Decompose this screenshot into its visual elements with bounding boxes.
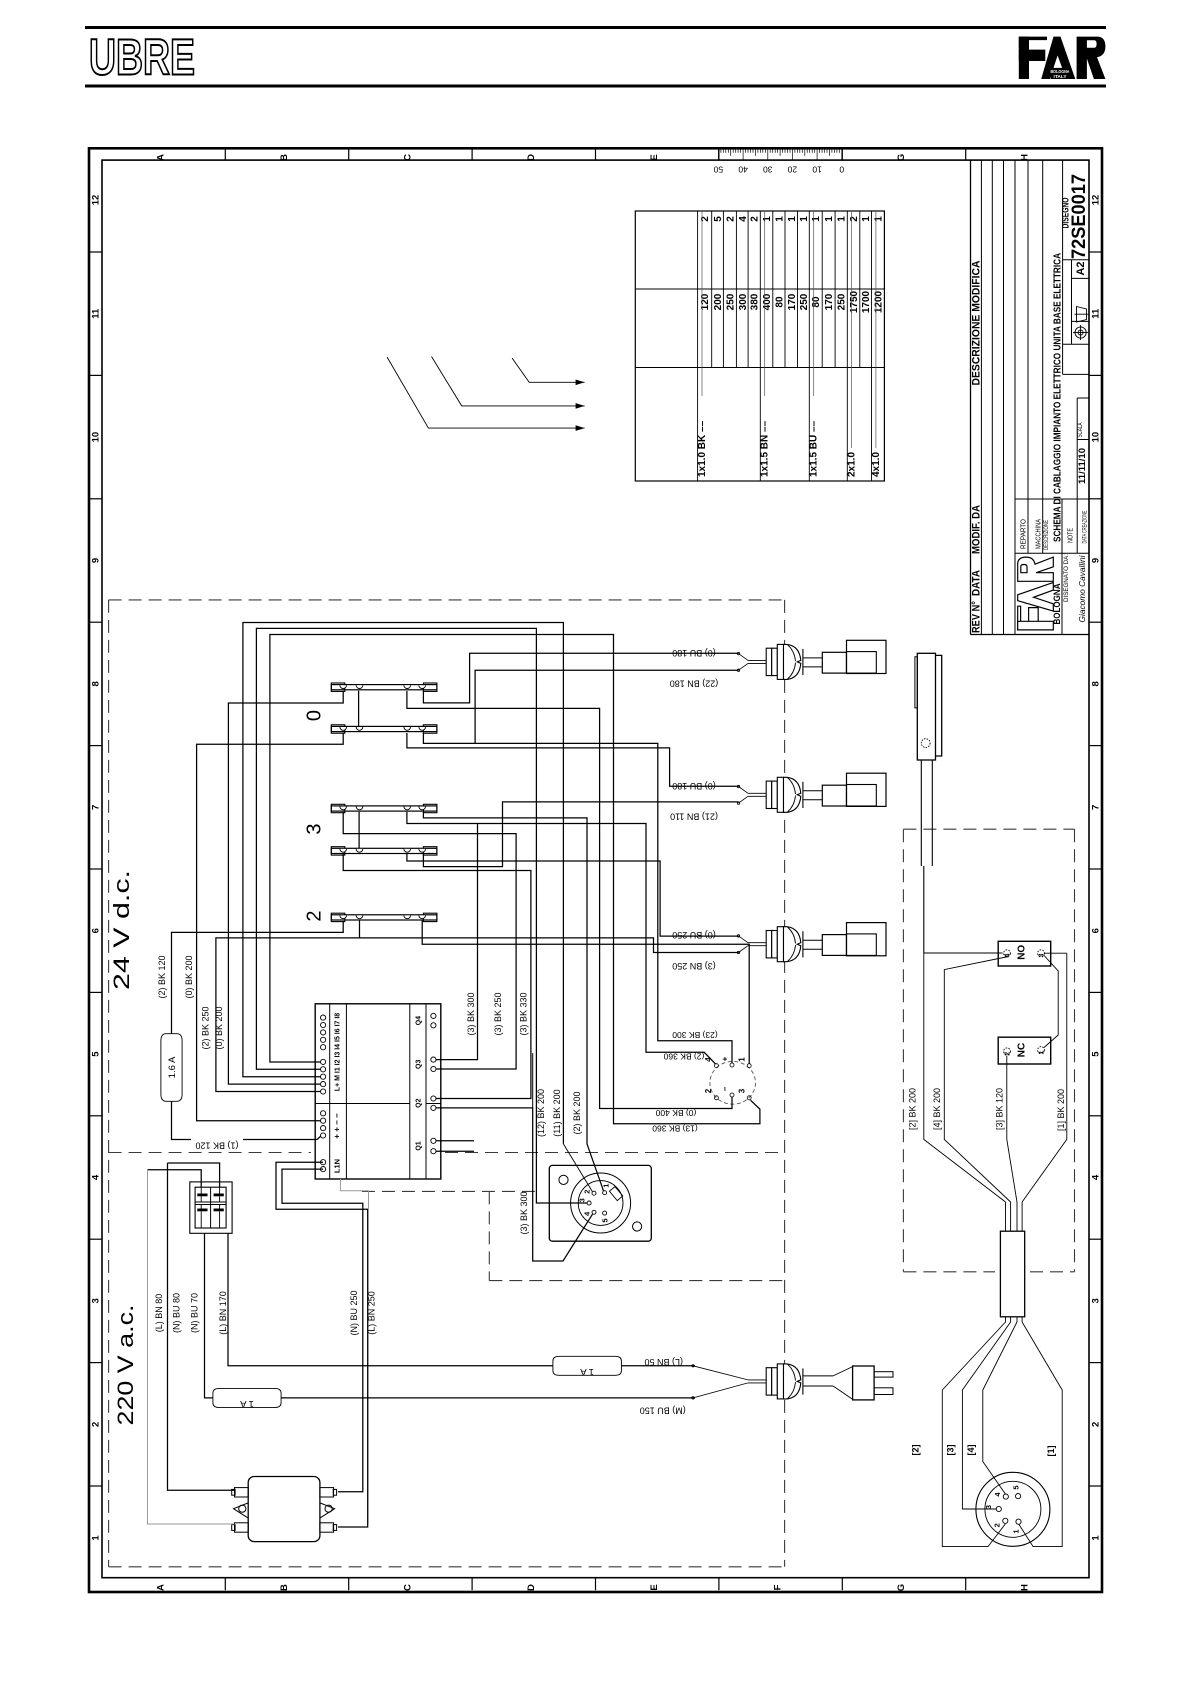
- svg-text:1 A: 1 A: [239, 1398, 253, 1409]
- svg-text:DISEGNATO DA:: DISEGNATO DA:: [1063, 554, 1070, 602]
- valve block 3 top bar: [331, 806, 437, 811]
- svg-text:(N) BU 70: (N) BU 70: [189, 1293, 199, 1333]
- reed sensor stem: [920, 760, 922, 866]
- DIN socket pins: [603, 1191, 607, 1195]
- wire: valve2 right pins: [359, 920, 361, 938]
- ruler top band dividers: [224, 148, 226, 160]
- svg-text:3: 3: [737, 1088, 746, 1093]
- svg-text:(0) BU 250: (0) BU 250: [672, 930, 716, 940]
- svg-text:−: −: [720, 1086, 729, 1091]
- wire: I1 bus to circular connector pin3 via (13) BK 360: [270, 635, 760, 1124]
- svg-text:8: 8: [91, 681, 102, 686]
- svg-text:7: 7: [91, 805, 102, 810]
- DIN panel socket plate: [549, 1165, 651, 1241]
- svg-text:[4] BK 200: [4] BK 200: [932, 1088, 942, 1130]
- svg-text:2: 2: [91, 1422, 102, 1427]
- cable wires into sheath: [1005, 1202, 1007, 1231]
- leader arrow 1: [387, 357, 584, 428]
- wire: I2 bus to DIN pin3: [256, 628, 587, 1203]
- svg-text:(3) BK 300: (3) BK 300: [519, 1191, 529, 1234]
- svg-text:1: 1: [1039, 1050, 1046, 1054]
- wire: (L) BN 80 to EMI left top tab: [168, 1163, 235, 1490]
- svg-text:REV N°: REV N°: [971, 601, 983, 633]
- svg-text:1: 1: [91, 1535, 102, 1541]
- svg-text:9: 9: [1091, 558, 1102, 563]
- svg-text:4: 4: [1091, 1174, 1102, 1180]
- svg-text:1: 1: [1011, 1529, 1020, 1533]
- svg-text:(2) BK 250: (2) BK 250: [201, 1006, 211, 1049]
- svg-text:(0) BK 200: (0) BK 200: [184, 955, 194, 998]
- reed sensor body: [936, 655, 942, 756]
- svg-text:220 V a.c.: 220 V a.c.: [113, 1305, 138, 1426]
- svg-text:(13) BK 360: (13) BK 360: [652, 1124, 698, 1134]
- EMI filter mounting ears: [234, 1503, 249, 1518]
- svg-text:NO: NO: [1016, 945, 1027, 960]
- wire: valve3 top bar right pins: [423, 812, 603, 1191]
- svg-text:(3) BK 330: (3) BK 330: [519, 992, 529, 1035]
- svg-text:1 A: 1 A: [580, 1366, 594, 1377]
- wires: sensor stem to NO switch and cable: [924, 952, 1003, 954]
- svg-text:1: 1: [861, 216, 872, 222]
- leader arrow 2: [432, 357, 585, 406]
- svg-text:+: +: [720, 1056, 729, 1061]
- svg-text:5: 5: [91, 1051, 102, 1057]
- svg-text:200: 200: [713, 293, 724, 310]
- svg-text:4x1.0: 4x1.0: [871, 452, 882, 477]
- svg-text:80: 80: [774, 296, 785, 308]
- svg-text:DATA: DATA: [971, 570, 983, 596]
- ruler bottom band dividers: [224, 1578, 226, 1591]
- wire: Q1a stub: [436, 1140, 474, 1142]
- svg-text:10: 10: [812, 165, 822, 175]
- valve block 3 interbar link: [358, 812, 360, 848]
- svg-text:170: 170: [824, 293, 835, 310]
- svg-text:Giacomo Cavallini: Giacomo Cavallini: [1077, 554, 1087, 622]
- svg-text:1: 1: [824, 216, 835, 222]
- svg-text:1: 1: [602, 1184, 611, 1188]
- svg-text:1x1.5 BU ––: 1x1.5 BU ––: [809, 420, 820, 477]
- wire: (L) BN 170 to right 1A fuse: [228, 1233, 553, 1366]
- controller input terminals: [321, 1015, 326, 1020]
- bottom DIN plug: [976, 1472, 1050, 1546]
- controller L1N terminals: [321, 1160, 326, 1165]
- svg-text:72SE0017: 72SE0017: [1069, 174, 1090, 259]
- wire: branch to sensor connector 1 lower (22) BN 180: [475, 670, 738, 743]
- EMI filter body: [248, 1477, 320, 1542]
- ruler left band dividers: [89, 251, 102, 253]
- svg-text:5: 5: [713, 216, 724, 222]
- svg-text:3: 3: [304, 823, 326, 834]
- svg-text:C: C: [402, 154, 413, 161]
- svg-text:D: D: [526, 1584, 537, 1591]
- DIN socket keyway: [609, 1187, 622, 1201]
- svg-text:1x1.5 BN ––: 1x1.5 BN ––: [760, 420, 771, 477]
- wire table: [635, 211, 884, 481]
- svg-text:5: 5: [600, 1218, 609, 1222]
- svg-text:ITALY: ITALY: [1054, 74, 1068, 80]
- svg-text:(M) BU 150: (M) BU 150: [640, 1406, 686, 1416]
- title block: [970, 160, 972, 634]
- svg-text:(3) BK 300: (3) BK 300: [466, 992, 476, 1035]
- svg-text:8: 8: [1091, 681, 1102, 686]
- svg-text:1200: 1200: [874, 290, 885, 313]
- switch NC: [998, 1037, 1050, 1064]
- svg-text:2: 2: [704, 1088, 713, 1093]
- svg-text:B: B: [279, 154, 290, 161]
- sensor connector 2: [737, 785, 739, 787]
- svg-text:5: 5: [1011, 1485, 1020, 1489]
- svg-text:3: 3: [91, 1298, 102, 1303]
- svg-text:4: 4: [91, 1174, 102, 1180]
- svg-text:L1N: L1N: [333, 1159, 342, 1173]
- svg-text:H: H: [1019, 1584, 1030, 1591]
- fuse 1.6 A: [161, 1034, 182, 1102]
- svg-text:20: 20: [787, 165, 797, 175]
- dashed box DIN socket: [362, 1190, 536, 1192]
- svg-text:1750: 1750: [849, 290, 860, 313]
- svg-text:DESCRIZIONE MODIFICA: DESCRIZIONE MODIFICA: [971, 260, 983, 385]
- svg-text:380: 380: [750, 293, 761, 310]
- sensor connector 1: [737, 652, 739, 654]
- wire: Q3a tap to valve3 feed: [436, 824, 478, 1060]
- svg-text:NC: NC: [1016, 1043, 1027, 1057]
- fuse block: [190, 1182, 232, 1233]
- svg-text:(L) BN 170: (L) BN 170: [218, 1291, 228, 1335]
- valve block 0 top bar: [331, 685, 437, 690]
- projection symbol: [1073, 307, 1089, 341]
- wire: I5 to valve2 / sensor3 BN: [216, 938, 739, 1092]
- svg-text:(N) BU 80: (N) BU 80: [172, 1293, 182, 1333]
- svg-text:BOLOGNA: BOLOGNA: [1051, 69, 1070, 75]
- wire: valve3 left pins to Q outputs: [343, 812, 516, 1069]
- svg-text:+ + − −: + + − −: [333, 1113, 342, 1139]
- wire: I3 bus to DIN pin1: [243, 623, 564, 1144]
- svg-text:11/11/10: 11/11/10: [1077, 448, 1088, 484]
- wire: (3) BK 300 label vertical upper: [532, 1053, 534, 1108]
- svg-text:2: 2: [304, 910, 326, 921]
- svg-text:1: 1: [874, 216, 885, 222]
- svg-text:[4]: [4]: [966, 1444, 976, 1455]
- cable fan-out below sheath: [942, 1322, 1005, 1547]
- dashed divider 24V/220V: [109, 1152, 311, 1154]
- svg-text:11: 11: [91, 308, 102, 319]
- svg-text:30: 30: [763, 165, 773, 175]
- svg-text:[2]: [2]: [911, 1444, 921, 1455]
- svg-text:2: 2: [849, 216, 860, 222]
- wire: - via 1.6A fuse to valve2 left pin: [172, 1101, 321, 1139]
- wires: fuse block top: [168, 1163, 220, 1187]
- svg-text:MACCHINA: MACCHINA: [1036, 519, 1043, 549]
- svg-text:(23) BK 300: (23) BK 300: [672, 1030, 718, 1040]
- svg-text:9: 9: [91, 558, 102, 563]
- svg-text:2x1.0: 2x1.0: [846, 452, 857, 477]
- header bottom rule: [85, 85, 1106, 88]
- svg-text:A: A: [156, 1584, 167, 1591]
- svg-text:0: 0: [839, 165, 844, 175]
- wire: Q2b to DIN pin4: [436, 1108, 593, 1261]
- wire: + to valve0 bottom bar left pin: [197, 733, 344, 1121]
- svg-text:1: 1: [1091, 1535, 1102, 1541]
- svg-text:7: 7: [1091, 805, 1102, 810]
- svg-text:(N) BU 250: (N) BU 250: [349, 1290, 359, 1335]
- svg-text:A2: A2: [1075, 261, 1087, 275]
- label (1) BK 120: [191, 1133, 243, 1144]
- svg-text:(L) BN 80: (L) BN 80: [154, 1294, 164, 1333]
- svg-text:[3] BK 120: [3] BK 120: [994, 1088, 1004, 1130]
- svg-text:80: 80: [811, 296, 822, 308]
- controller box: [315, 1004, 441, 1179]
- svg-text:1: 1: [811, 216, 822, 222]
- drawing frame inner boundary: [102, 160, 1089, 1578]
- valve block 0 bottom bar: [331, 726, 437, 731]
- svg-text:24 V d.c.: 24 V d.c.: [109, 870, 134, 990]
- wire: valve0 bottom bar right pins: [423, 733, 732, 1063]
- svg-text:1: 1: [737, 1057, 746, 1062]
- svg-text:H: H: [1019, 154, 1030, 161]
- svg-text:11: 11: [1091, 308, 1102, 319]
- svg-text:40: 40: [738, 165, 748, 175]
- wire: valve0 top bar right pins to sensor connector 1: [423, 653, 738, 703]
- FAR logo (header, solid): [1019, 37, 1047, 48]
- svg-text:Q4: Q4: [416, 1016, 423, 1025]
- svg-text:UBRE: UBRE: [89, 29, 195, 86]
- svg-text:2: 2: [1005, 1052, 1012, 1056]
- svg-text:A: A: [156, 154, 167, 161]
- svg-text:C: C: [402, 1584, 413, 1591]
- svg-text:Q3: Q3: [416, 1060, 423, 1069]
- drawing frame outer: [89, 148, 1102, 1592]
- svg-text:2: 2: [583, 1190, 592, 1194]
- FAR outline logo (title block): [1018, 557, 1054, 630]
- grey wire from controller bottom: [340, 1179, 368, 1524]
- svg-text:1: 1: [787, 216, 798, 222]
- svg-text:250: 250: [799, 293, 810, 310]
- wire: I4 to valve0 top bar left pin: [228, 691, 343, 1084]
- svg-text:1: 1: [762, 216, 773, 222]
- svg-text:10: 10: [91, 432, 102, 443]
- svg-text:MODIF. DA: MODIF. DA: [971, 505, 983, 554]
- svg-text:(2) BK 360: (2) BK 360: [663, 1051, 704, 1061]
- svg-text:300: 300: [738, 293, 749, 310]
- svg-text:250: 250: [725, 293, 736, 310]
- wire: Q1b stub: [436, 1150, 474, 1152]
- svg-text:(0) BK 200: (0) BK 200: [214, 1006, 224, 1049]
- svg-text:[3]: [3]: [946, 1444, 956, 1455]
- wire: L1N to EMI filter right tabs: [282, 1169, 363, 1492]
- svg-text:6: 6: [91, 928, 102, 933]
- svg-text:(2) BK 200: (2) BK 200: [572, 1091, 582, 1134]
- svg-text:1700: 1700: [861, 290, 872, 313]
- svg-text:REPARTO: REPARTO: [1019, 519, 1028, 549]
- svg-text:SCALA: SCALA: [1077, 422, 1084, 437]
- svg-text:1x1.0 BK ––: 1x1.0 BK ––: [697, 420, 708, 477]
- svg-text:2: 2: [1091, 1422, 1102, 1427]
- svg-text:1: 1: [799, 216, 810, 222]
- mains cable gland: [692, 1365, 694, 1367]
- controller outputs Q1-Q4: [431, 1013, 436, 1018]
- svg-text:[1] BK 200: [1] BK 200: [1056, 1089, 1066, 1131]
- svg-text:10: 10: [1091, 432, 1102, 443]
- svg-text:2: 2: [993, 1523, 1002, 1527]
- svg-text:(3) BN 250: (3) BN 250: [672, 961, 716, 971]
- svg-text:F: F: [773, 1584, 784, 1590]
- svg-text:50: 50: [713, 165, 723, 175]
- svg-text:DATA CREAZIONE: DATA CREAZIONE: [1083, 511, 1089, 544]
- cable sheath: [1000, 1231, 1024, 1317]
- svg-text:12: 12: [1091, 195, 1102, 206]
- svg-text:400: 400: [762, 293, 773, 310]
- svg-text:(11) BK 200: (11) BK 200: [552, 1089, 562, 1136]
- svg-text:(2) BK 120: (2) BK 120: [157, 955, 167, 998]
- leader arrow 3: [512, 358, 585, 382]
- header top rule: [85, 26, 1106, 29]
- svg-text:(21) BN 110: (21) BN 110: [670, 812, 718, 822]
- wire: 1A fuse left to mains converge (bottom wire): [281, 1397, 695, 1399]
- svg-text:2: 2: [725, 216, 736, 222]
- dashed box right section (sensor switches): [903, 828, 1074, 830]
- svg-text:4: 4: [738, 216, 749, 222]
- svg-text:250: 250: [837, 293, 848, 310]
- svg-text:L+ M I1 I2 I3 I4 I5 I6 I7 I8: L+ M I1 I2 I3 I4 I5 I6 I7 I8: [335, 1013, 342, 1092]
- mm scale ruler in F cell: [717, 148, 719, 160]
- svg-text:0: 0: [304, 710, 326, 721]
- svg-text:B: B: [279, 1584, 290, 1591]
- svg-text:1: 1: [774, 216, 785, 222]
- controller power terminals: [321, 1111, 326, 1116]
- DIN socket circles: [571, 1173, 631, 1233]
- svg-text:(0) BK 400: (0) BK 400: [655, 1108, 696, 1118]
- svg-text:[1]: [1]: [1046, 1445, 1056, 1456]
- svg-text:Q2: Q2: [416, 1098, 423, 1107]
- svg-text:170: 170: [787, 293, 798, 310]
- svg-text:1: 1: [837, 216, 848, 222]
- ruler right band dividers: [1089, 251, 1102, 253]
- svg-text:[2] BK 200: [2] BK 200: [907, 1088, 917, 1130]
- svg-text:Q1: Q1: [416, 1141, 423, 1150]
- svg-text:G: G: [896, 154, 907, 161]
- svg-text:3: 3: [578, 1198, 587, 1202]
- wire: bus diag to DIN pin2: [563, 1144, 592, 1192]
- svg-text:3: 3: [1091, 1298, 1102, 1303]
- switch NO: [998, 941, 1050, 966]
- svg-text:(3) BK 250: (3) BK 250: [493, 992, 503, 1035]
- svg-text:E: E: [649, 1584, 660, 1590]
- svg-text:E: E: [649, 154, 660, 160]
- svg-text:5: 5: [1091, 1051, 1102, 1057]
- wire: fuse block bottom to 1A fuse: [205, 1233, 213, 1398]
- svg-text:(L) BN 250: (L) BN 250: [367, 1291, 377, 1335]
- fuse 1 A (right): [553, 1356, 622, 1375]
- svg-text:2: 2: [750, 216, 761, 222]
- svg-text:G: G: [896, 1584, 907, 1591]
- wire: valve3 bottom bar right pins: [423, 802, 738, 867]
- svg-text:12: 12: [91, 195, 102, 206]
- wire: (N) BU 80 to EMI left bottom tab (grey): [148, 1170, 235, 1524]
- svg-text:(1) BK 120: (1) BK 120: [195, 1141, 238, 1151]
- svg-text:SCHEMA DI CABLAGGIO IMPIANTO E: SCHEMA DI CABLAGGIO IMPIANTO ELETTRICO U…: [1053, 253, 1064, 542]
- svg-text:6: 6: [1091, 928, 1102, 933]
- svg-text:3: 3: [984, 1505, 993, 1509]
- svg-text:DESCRIZIONE: DESCRIZIONE: [1044, 520, 1050, 550]
- EMI filter tabs: [235, 1488, 249, 1497]
- sensor connector 3: [737, 935, 739, 937]
- svg-text:1.6 A: 1.6 A: [167, 1056, 178, 1078]
- svg-text:(22) BN 180: (22) BN 180: [670, 678, 719, 688]
- mains plug body: [853, 1366, 875, 1400]
- wire: right 1A fuse to mains converge (top wire): [621, 1365, 695, 1367]
- valve block 2 bar: [331, 915, 437, 920]
- valve block 0 interbar link: [358, 691, 360, 727]
- valve block 3 bottom bar: [331, 848, 437, 853]
- svg-text:NOTE: NOTE: [1068, 528, 1075, 543]
- svg-text:D: D: [526, 154, 537, 161]
- mains plug prongs: [874, 1372, 893, 1377]
- svg-text:(12) BK 200: (12) BK 200: [536, 1089, 546, 1137]
- fuse 1 A (left): [213, 1388, 281, 1407]
- circular connector (dashed): [710, 1061, 756, 1104]
- dashed box 24V dc + 220V ac left/right: [109, 599, 785, 601]
